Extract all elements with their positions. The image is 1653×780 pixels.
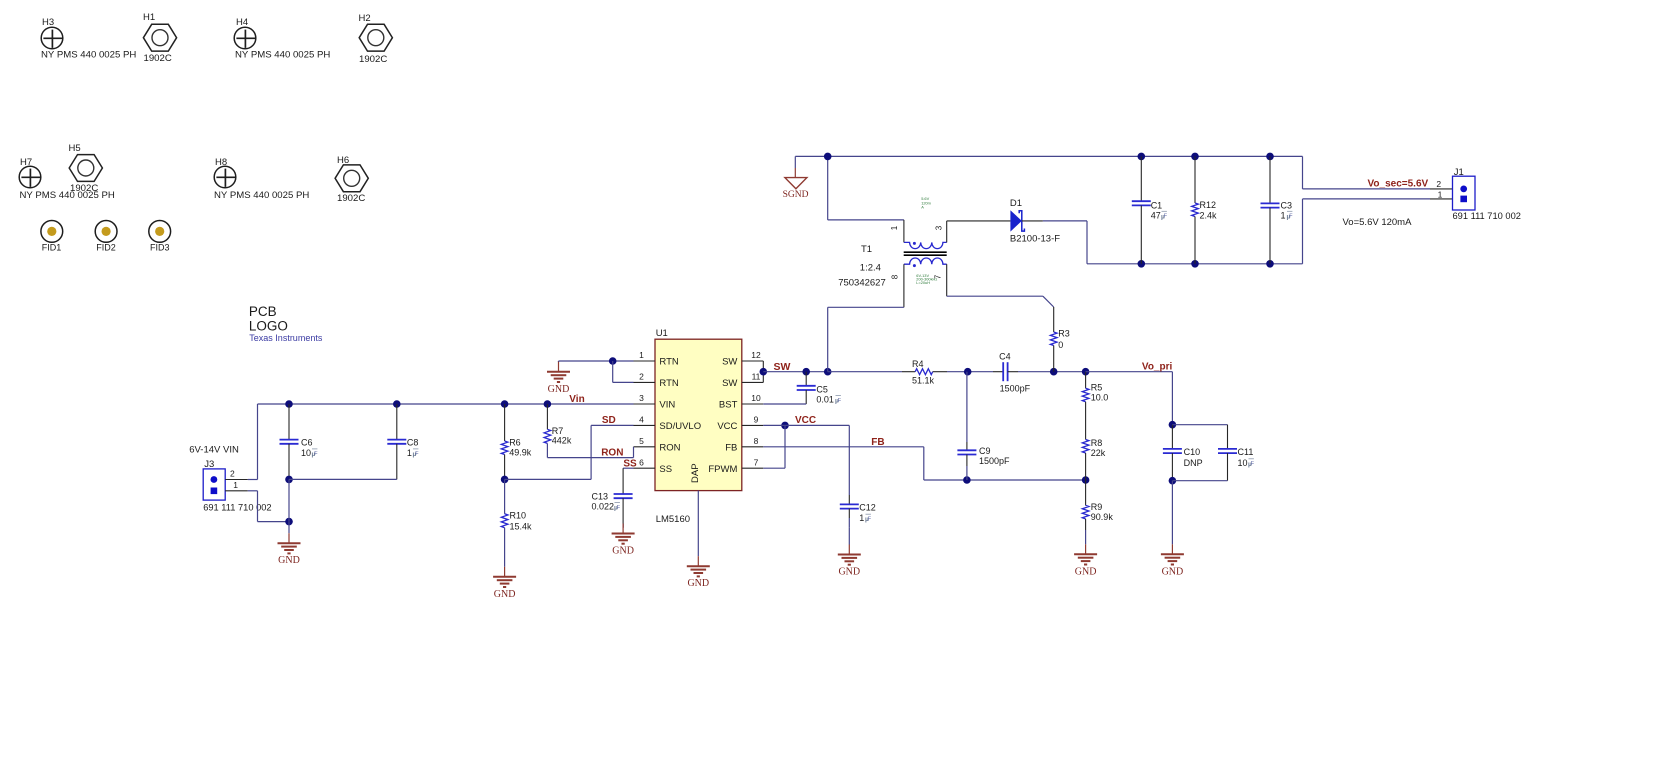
svg-text:R12: R12 [1200,200,1217,210]
svg-text:10: 10 [1238,458,1248,468]
svg-text:GND: GND [687,578,709,589]
svg-text:C12: C12 [859,502,876,512]
svg-text:750342627: 750342627 [838,278,886,289]
svg-text:C4: C4 [999,351,1011,361]
svg-text:H6: H6 [337,155,349,166]
svg-text:H3: H3 [42,17,54,28]
svg-text:D1: D1 [1010,198,1022,209]
svg-text:C5: C5 [816,385,828,395]
svg-text:GND: GND [1162,566,1184,577]
svg-text:GND: GND [278,555,300,566]
svg-text:LM5160: LM5160 [656,514,690,525]
svg-text:C6: C6 [301,438,313,448]
svg-text:RON: RON [659,442,680,453]
svg-text:1: 1 [890,225,899,230]
svg-text:H2: H2 [359,13,371,24]
svg-text:Texas Instruments: Texas Instruments [249,333,323,343]
svg-text:C11: C11 [1238,447,1254,457]
svg-text:6V-14V VIN: 6V-14V VIN [189,445,239,456]
svg-text:RTN: RTN [659,357,678,368]
svg-text:90.9k: 90.9k [1091,512,1114,522]
svg-text:1902C: 1902C [337,193,365,204]
svg-text:1500pF: 1500pF [979,456,1010,466]
svg-text:2: 2 [1436,179,1441,189]
svg-text:1: 1 [859,513,864,523]
svg-text:NY PMS 440 0025 PH: NY PMS 440 0025 PH [20,190,115,201]
svg-text:H1: H1 [143,12,155,23]
svg-text:2.4k: 2.4k [1200,211,1218,221]
svg-text:2: 2 [230,469,235,479]
svg-text:T1: T1 [861,244,872,255]
svg-text:1: 1 [1281,210,1286,220]
svg-text:SD: SD [602,415,616,426]
svg-text:691 111 710 002: 691 111 710 002 [1453,211,1521,221]
svg-text:LOGO: LOGO [249,319,288,334]
svg-text:49.9k: 49.9k [509,447,532,457]
svg-text:RON: RON [601,447,623,458]
svg-text:SD/UVLO: SD/UVLO [659,421,701,432]
svg-text:NY PMS 440 0025 PH: NY PMS 440 0025 PH [214,190,309,201]
svg-text:GND: GND [1075,566,1097,577]
svg-text:NY PMS 440 0025 PH: NY PMS 440 0025 PH [235,50,330,61]
svg-text:VCC: VCC [717,421,737,432]
svg-text:C10: C10 [1184,447,1201,457]
svg-text:RTN: RTN [659,378,678,389]
svg-text:C1: C1 [1151,201,1163,211]
svg-text:C13: C13 [592,492,609,502]
svg-text:691 111 710 002: 691 111 710 002 [203,502,271,512]
svg-text:7: 7 [754,457,759,467]
svg-text:9: 9 [754,415,759,425]
svg-text:FID1: FID1 [42,243,62,253]
svg-text:47: 47 [1151,210,1161,220]
svg-text:0: 0 [1058,340,1063,350]
svg-text:4: 4 [639,415,644,425]
svg-text:U1: U1 [656,328,668,339]
svg-text:6: 6 [639,457,644,467]
svg-text:Vin: Vin [569,394,584,405]
svg-text:SS: SS [659,464,672,475]
svg-text:1: 1 [639,350,644,360]
svg-text:8: 8 [890,274,899,279]
svg-text:GND: GND [838,567,860,578]
svg-text:12: 12 [751,350,761,360]
svg-text:1:2.4: 1:2.4 [860,263,881,274]
svg-text:A: A [921,205,924,210]
svg-text:FID2: FID2 [96,243,116,253]
svg-text:3: 3 [935,225,944,230]
svg-text:8: 8 [754,436,759,446]
svg-text:BST: BST [719,400,738,411]
svg-text:DNP: DNP [1184,458,1203,468]
svg-text:0.022: 0.022 [592,502,615,512]
svg-text:1: 1 [1438,189,1443,199]
svg-text:1902C: 1902C [144,53,172,64]
svg-text:J3: J3 [204,459,214,470]
svg-text:NY PMS 440 0025 PH: NY PMS 440 0025 PH [41,50,136,61]
svg-text:0.01: 0.01 [816,395,834,405]
svg-text:J1: J1 [1454,167,1464,178]
svg-text:SW: SW [722,378,737,389]
svg-text:R4: R4 [912,359,924,369]
svg-text:C9: C9 [979,446,991,456]
svg-text:SW: SW [722,357,737,368]
svg-text:FB: FB [871,437,884,448]
svg-text:3: 3 [639,393,644,403]
svg-text:DAP: DAP [690,463,701,483]
svg-text:B2100-13-F: B2100-13-F [1010,233,1060,244]
svg-text:C8: C8 [407,438,419,448]
svg-text:R3: R3 [1058,329,1070,339]
svg-text:VCC: VCC [795,415,816,426]
svg-text:SS: SS [623,458,637,469]
svg-text:H5: H5 [69,143,81,154]
svg-text:H8: H8 [215,157,227,168]
svg-text:1: 1 [233,480,238,490]
svg-text:1500pF: 1500pF [1000,383,1031,393]
svg-text:R10: R10 [510,511,527,521]
svg-text:R6: R6 [509,438,521,448]
svg-text:VIN: VIN [659,400,675,411]
svg-text:GND: GND [612,546,634,557]
svg-text:GND: GND [494,589,516,600]
svg-text:Vo=5.6V 120mA: Vo=5.6V 120mA [1343,217,1413,228]
svg-text:C3: C3 [1281,201,1293,211]
svg-text:FPWM: FPWM [708,464,737,475]
svg-text:10: 10 [301,448,311,458]
svg-text:SW: SW [774,361,791,373]
svg-text:R7: R7 [552,426,564,436]
svg-text:H4: H4 [236,17,248,28]
svg-text:L=20uH: L=20uH [916,280,930,285]
svg-text:51.1k: 51.1k [912,375,935,385]
svg-text:SGND: SGND [783,190,809,200]
svg-text:FID3: FID3 [150,243,170,253]
svg-text:R9: R9 [1091,502,1103,512]
svg-text:Vo_sec=5.6V: Vo_sec=5.6V [1368,178,1429,189]
svg-text:PCB: PCB [249,304,277,319]
svg-text:1902C: 1902C [359,54,387,65]
svg-text:442k: 442k [552,436,572,446]
svg-text:11: 11 [752,372,761,382]
svg-text:10: 10 [751,393,761,403]
svg-text:H7: H7 [20,157,32,168]
svg-text:2: 2 [639,372,644,382]
svg-text:1: 1 [407,448,412,458]
svg-text:Vo_pri: Vo_pri [1142,361,1173,372]
svg-text:GND: GND [548,384,570,395]
svg-text:FB: FB [725,442,737,453]
svg-text:R8: R8 [1091,438,1103,448]
svg-text:22k: 22k [1091,448,1106,458]
svg-text:5: 5 [639,436,644,446]
svg-text:10.0: 10.0 [1091,393,1109,403]
svg-text:R5: R5 [1091,383,1103,393]
svg-text:1902C: 1902C [70,183,98,194]
svg-text:15.4k: 15.4k [510,521,533,531]
